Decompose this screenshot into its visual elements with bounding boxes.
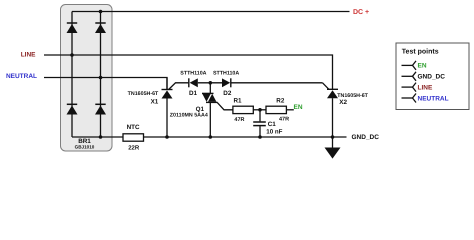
test point symbol GND_DC bbox=[402, 72, 417, 81]
svg-text:R2: R2 bbox=[276, 98, 285, 105]
svg-text:X1: X1 bbox=[151, 98, 159, 105]
wire bridge right column bbox=[100, 12, 102, 138]
ground symbol bbox=[325, 137, 341, 159]
svg-text:X2: X2 bbox=[339, 99, 347, 106]
test points legend box bbox=[396, 43, 469, 110]
svg-text:C1: C1 bbox=[268, 121, 277, 128]
test point symbol NEUTRAL bbox=[402, 94, 417, 103]
junction bridge bottom bbox=[99, 135, 103, 139]
svg-text:NTC: NTC bbox=[127, 124, 140, 131]
svg-text:EN: EN bbox=[418, 63, 427, 70]
svg-text:NEUTRAL: NEUTRAL bbox=[6, 73, 37, 80]
svg-text:STTH110A: STTH110A bbox=[180, 70, 206, 76]
triac Q1 bbox=[202, 93, 218, 137]
junction NEUTRAL right column bbox=[99, 76, 103, 80]
svg-text:NEUTRAL: NEUTRAL bbox=[418, 95, 449, 102]
svg-text:47R: 47R bbox=[234, 117, 244, 123]
svg-text:STTH110A: STTH110A bbox=[213, 70, 239, 76]
wire D1 to D2 bbox=[198, 82, 222, 84]
svg-text:R1: R1 bbox=[234, 97, 243, 104]
svg-text:GND_DC: GND_DC bbox=[418, 74, 446, 81]
svg-text:Test points: Test points bbox=[402, 48, 439, 56]
wire R2 to EN bbox=[286, 109, 293, 111]
diode bridge top-left bbox=[67, 23, 78, 33]
thyristor X2 bbox=[327, 89, 338, 137]
svg-text:D2: D2 bbox=[223, 90, 232, 97]
wire X1 gate bbox=[169, 83, 189, 90]
junction D1-D2 to Q1 bbox=[209, 81, 213, 85]
svg-text:GND_DC: GND_DC bbox=[352, 134, 380, 141]
svg-text:47R: 47R bbox=[279, 117, 289, 123]
wire bridge left column bbox=[71, 12, 73, 138]
wire NEUTRAL rail bbox=[44, 78, 167, 90]
test point symbol EN bbox=[402, 61, 417, 70]
junction LINE left column bbox=[70, 53, 74, 57]
bridge rectifier BR1 body bbox=[61, 5, 113, 152]
svg-text:EN: EN bbox=[294, 104, 303, 111]
junction X2 bottom bbox=[331, 135, 335, 139]
resistor R2 bbox=[266, 106, 286, 113]
wire Q1 gate bbox=[217, 103, 233, 110]
wire X2 gate bbox=[323, 83, 330, 90]
wire R1 to R2 bbox=[253, 109, 266, 111]
junction X1 bottom bbox=[165, 135, 169, 139]
junction Q1 bottom bbox=[209, 135, 213, 139]
diode bridge bottom-left bbox=[67, 104, 78, 114]
diode bridge bottom-right bbox=[95, 104, 106, 114]
diode bridge top-right bbox=[95, 23, 106, 33]
wire D2 to X2 gate bbox=[231, 82, 323, 84]
svg-text:DC +: DC + bbox=[353, 9, 369, 16]
svg-text:LINE: LINE bbox=[21, 52, 36, 59]
svg-text:10 nF: 10 nF bbox=[266, 129, 282, 136]
svg-text:22R: 22R bbox=[128, 145, 140, 152]
wire GND_DC bottom rail bbox=[72, 136, 347, 138]
svg-text:GBJ1010: GBJ1010 bbox=[75, 144, 95, 149]
svg-text:LINE: LINE bbox=[418, 84, 433, 91]
test point symbol LINE bbox=[402, 83, 417, 92]
junction C1 bottom bbox=[258, 135, 262, 139]
wire DC+ top rail bbox=[72, 11, 350, 13]
junction R1-R2 to C1 bbox=[258, 108, 262, 112]
junction bridge top bbox=[99, 10, 103, 14]
svg-text:D1: D1 bbox=[189, 90, 198, 97]
svg-text:TN1605H-6T: TN1605H-6T bbox=[128, 91, 159, 97]
svg-text:Z0110MN 5AA4: Z0110MN 5AA4 bbox=[170, 113, 208, 119]
diode D1 bbox=[189, 78, 198, 87]
diode D2 bbox=[222, 78, 231, 87]
resistor R1 bbox=[233, 106, 253, 113]
resistor NTC bbox=[123, 134, 144, 141]
thyristor X1 bbox=[162, 78, 173, 138]
wire LINE rail bbox=[44, 55, 333, 89]
wire Q1 top bbox=[209, 83, 211, 94]
capacitor C1 bbox=[253, 110, 266, 137]
